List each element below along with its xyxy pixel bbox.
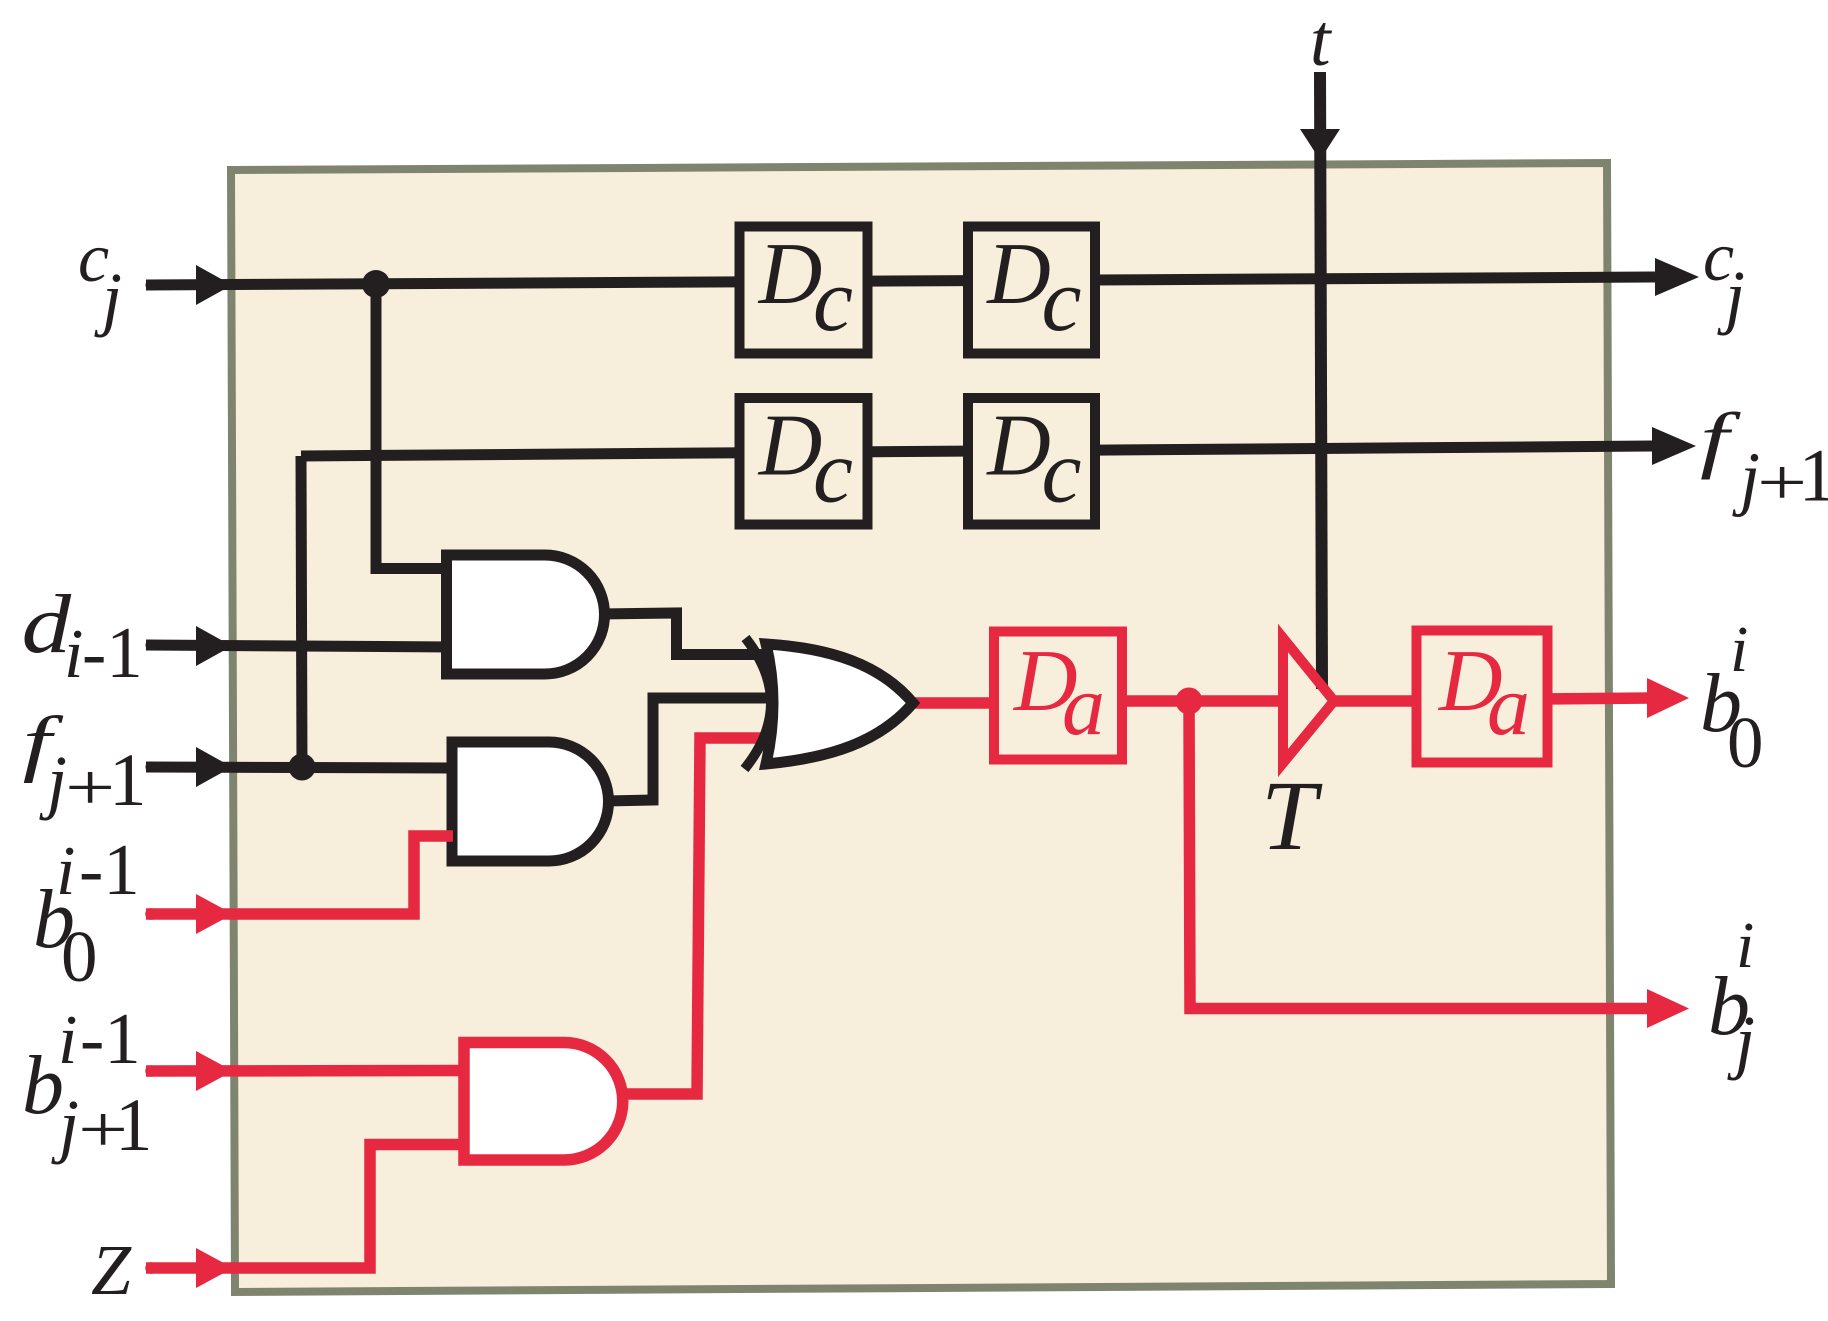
wire red T to Da2 (1330, 695, 1423, 707)
svg-text:c: c (1042, 251, 1082, 350)
svg-text:j: j (1732, 438, 1760, 518)
svg-text:T: T (1261, 760, 1323, 871)
svg-text:f: f (1700, 399, 1741, 480)
AND gate U1 (447, 555, 605, 674)
wire red XOR output to Da1 (908, 697, 998, 709)
svg-text:a: a (1062, 657, 1105, 753)
output arrowhead b_0^i red (1647, 678, 1689, 718)
wire c_j branch down to AND U1 (376, 284, 448, 569)
input arrowhead c_j (196, 265, 232, 305)
arrowhead t at box top (1300, 129, 1340, 160)
output arrowhead b_j^i red (1647, 989, 1689, 1028)
label b_j+1^i-1 input (22, 998, 153, 1167)
svg-text:1: 1 (1799, 435, 1828, 518)
wire red Da2 to output b_0^i (1539, 698, 1655, 699)
svg-text:-1: -1 (80, 998, 141, 1079)
svg-text:i: i (58, 1002, 77, 1079)
wire c_j row (146, 277, 1655, 285)
input arrowhead d_i-1 (196, 626, 232, 666)
input arrowhead b_j+1 (196, 1051, 233, 1091)
wire red Z input (146, 1145, 464, 1269)
wire red Da1 to T (1116, 695, 1287, 707)
wire input shaft round caps (146, 280, 157, 291)
svg-text:1: 1 (115, 1084, 153, 1167)
svg-text:t: t (1310, 0, 1333, 82)
wire f_j+1 input row (146, 767, 453, 768)
delay box Dc2 (968, 226, 1095, 354)
delay box Da2 red (1417, 631, 1548, 763)
output arrowhead f_j+1 (1652, 427, 1696, 465)
delay box Dc3 (740, 398, 868, 525)
buffer T outline repaint over t wire (1283, 638, 1334, 763)
AND gate U2 (452, 742, 609, 861)
svg-text:i: i (56, 833, 75, 910)
label b_j^i output (1708, 909, 1755, 1081)
label b_0^i-1 input (33, 829, 140, 997)
wire t input vertical (1320, 72, 1322, 689)
input arrowhead b_0^i-1 (196, 894, 233, 934)
label f_j+1 output (1700, 399, 1828, 519)
svg-text:c: c (813, 251, 853, 350)
delay box Dc1 (740, 226, 868, 354)
wire red b_j+1^i-1 input (146, 1065, 464, 1077)
delay box Da1 red (994, 632, 1122, 760)
wire d_i-1 input (146, 645, 453, 647)
wire red junction down and out b_j^i (1189, 701, 1655, 1009)
wire AND U1 output jog to XOR (600, 613, 773, 655)
XOR gate U4 (745, 638, 914, 769)
wire f_j+1 row (301, 446, 1655, 456)
svg-text:i: i (1736, 909, 1754, 982)
svg-text:-1: -1 (79, 829, 140, 910)
wire AND U2 output jog to XOR (605, 698, 773, 801)
node junction on c_j (362, 270, 390, 298)
wire f vertical branch (301, 456, 302, 768)
svg-text:i: i (1730, 613, 1748, 686)
svg-text:+: + (65, 750, 115, 823)
svg-text:c: c (1042, 423, 1082, 522)
wire red b_0^i-1 input (146, 836, 453, 914)
svg-text:a: a (1487, 657, 1530, 753)
svg-text:Z: Z (91, 1230, 132, 1310)
svg-text:0: 0 (61, 916, 98, 997)
label d_i-1 input (22, 577, 143, 693)
svg-text:1: 1 (109, 739, 147, 822)
wire red AND U3 output up to XOR (612, 738, 770, 1094)
input arrowhead Z (196, 1248, 233, 1288)
svg-text:c: c (813, 423, 853, 522)
svg-text:i: i (64, 616, 83, 693)
node junction on f input (289, 754, 316, 781)
AND gate U3 red (464, 1043, 623, 1161)
input arrowhead f_j+1 (196, 747, 232, 787)
svg-text:0: 0 (1727, 702, 1764, 783)
label f_j+1 input (23, 702, 147, 823)
output arrowhead c_j (1655, 258, 1699, 296)
node red junction (1176, 688, 1203, 715)
svg-text:-1: -1 (82, 612, 143, 693)
label c_j output (1703, 219, 1745, 336)
label b_0^i output (1700, 613, 1764, 783)
module boundary box (231, 163, 1611, 1292)
label c_j input (78, 220, 122, 338)
delay box Dc4 (968, 398, 1095, 525)
buffer T triangle (1283, 638, 1334, 763)
